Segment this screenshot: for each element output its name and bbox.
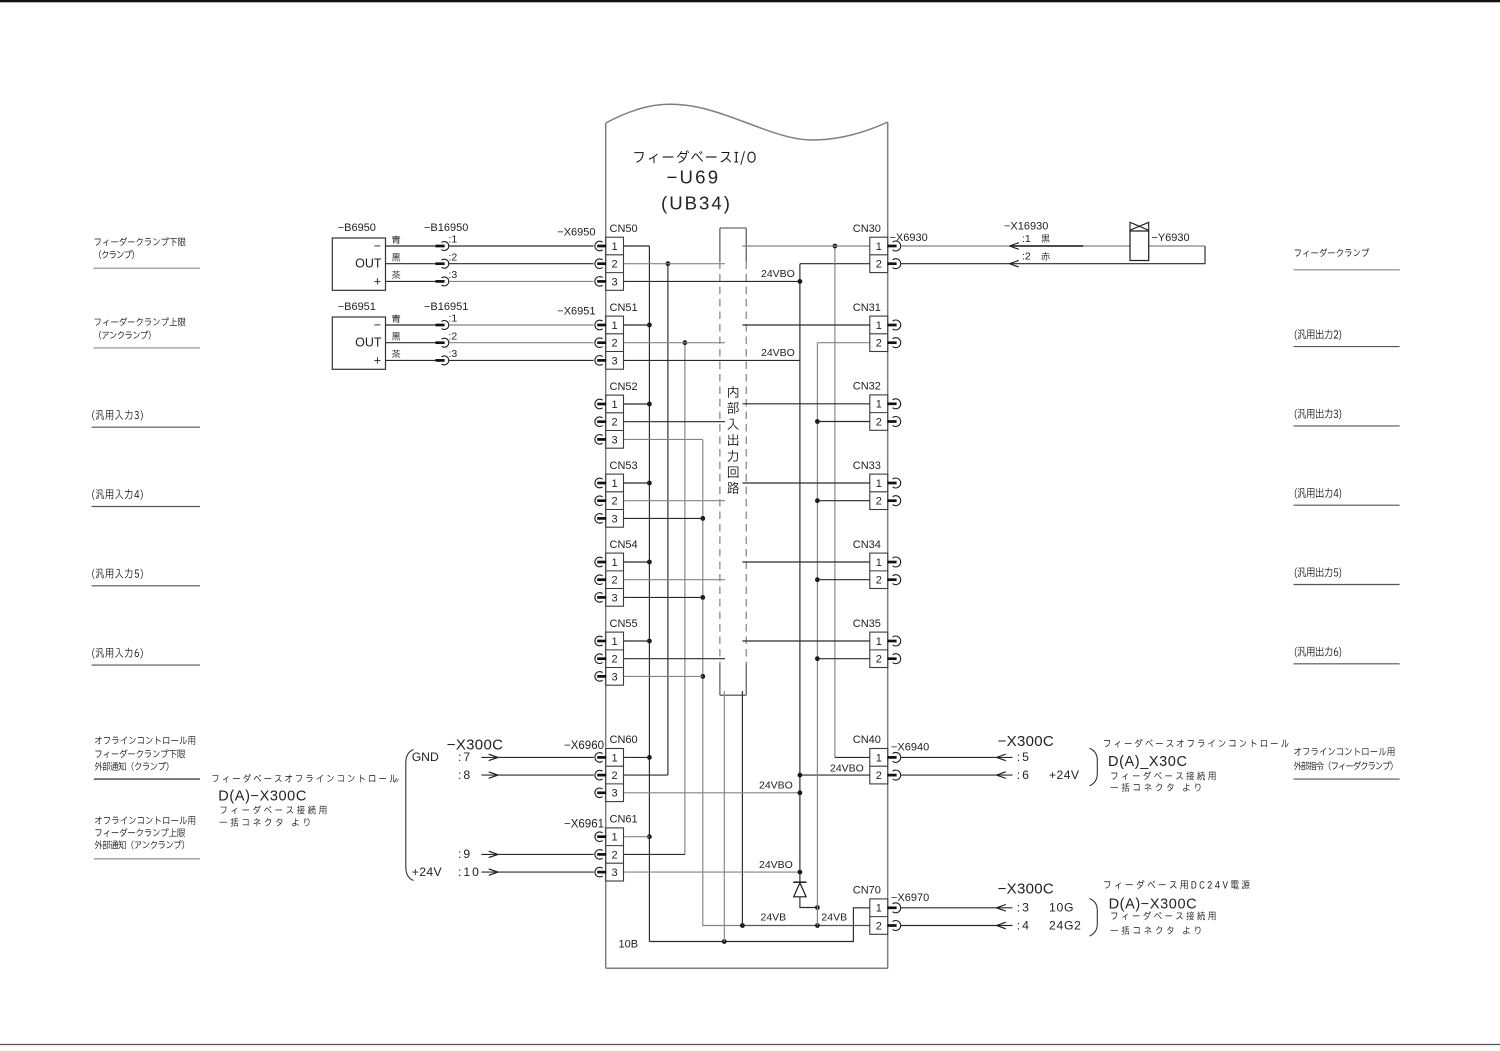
wire CN40-2 external	[901, 774, 1013, 776]
note feeder base offline control (right)	[1104, 739, 1288, 748]
wire B16951-1 to X6951-1	[449, 324, 594, 326]
wire B16950-2 to X6950-2	[449, 263, 594, 265]
junction dot 24VBO/CN60-3	[798, 790, 803, 795]
wire CN53 pin 2	[624, 500, 726, 502]
note feeder base connection (power)	[1111, 911, 1215, 920]
connector B16950 pin 2 symbol	[435, 262, 444, 265]
label feeder clamp upper limit	[95, 317, 186, 326]
svg-text:3: 3	[612, 592, 618, 604]
underline	[94, 347, 201, 349]
svg-text:CN32: CN32	[853, 381, 881, 393]
svg-text::2: :2	[449, 251, 458, 263]
wire CN60 pin 3	[624, 792, 800, 794]
svg-text:24VBO: 24VBO	[830, 762, 864, 774]
CN55 pin 1 socket symbol	[595, 636, 603, 646]
wire CN61 pin 3	[624, 871, 800, 873]
svg-text:3: 3	[612, 276, 618, 288]
connector CN35	[870, 632, 888, 667]
label feeder clamp lower limit	[95, 237, 186, 246]
svg-text:D(A)−X300C: D(A)−X300C	[1109, 897, 1198, 913]
svg-text:CN30: CN30	[853, 223, 881, 235]
label feeder clamp lower	[95, 749, 185, 758]
wire 24VBO to CN30-2	[800, 263, 870, 265]
underline	[1294, 584, 1400, 586]
svg-text:3: 3	[612, 671, 618, 683]
svg-text:−B6950: −B6950	[338, 222, 376, 234]
wire CN52 pin 1	[624, 403, 650, 405]
wire B16950-3 to X6950-3	[449, 280, 594, 282]
CN54 pin 3 socket symbol	[595, 593, 603, 603]
label ext notify (clamp)	[95, 762, 169, 771]
wire CN32 pin 2	[817, 421, 869, 423]
connector B16951 pin 1 symbol	[435, 324, 444, 327]
wire B6951 minus	[386, 324, 436, 326]
CN60 pin 3 socket symbol	[595, 788, 603, 798]
node bus 10G vertical (x=649)	[648, 246, 650, 942]
svg-text:−U69: −U69	[667, 167, 721, 188]
CN30 pin 1 plug symbol	[893, 241, 901, 251]
svg-text:2: 2	[876, 575, 882, 587]
svg-text:D(A)_X30C: D(A)_X30C	[1108, 754, 1188, 770]
svg-text:GND: GND	[412, 750, 439, 764]
CN32 pin 2 plug symbol	[893, 417, 901, 427]
underline	[1294, 663, 1400, 665]
svg-text:+: +	[374, 274, 381, 288]
svg-text:3: 3	[612, 788, 618, 800]
arrow into CN61-2	[489, 851, 498, 857]
svg-text:CN53: CN53	[610, 460, 638, 472]
wire B16950-1 to X6950-1	[449, 245, 594, 247]
wire CN55 pin 3	[624, 675, 703, 677]
underline	[94, 267, 201, 269]
svg-text:D(A)−X300C: D(A)−X300C	[218, 789, 307, 805]
wire CN34 pin 2	[817, 579, 869, 581]
svg-text:CN34: CN34	[853, 539, 881, 551]
brace CN70 group	[1090, 899, 1098, 937]
connector B16950 pin 1 symbol	[435, 245, 444, 248]
svg-text:24VBO: 24VBO	[759, 780, 793, 792]
wire CN60 pin 1	[624, 756, 650, 758]
label feeder base offline control	[212, 774, 396, 783]
svg-text:2: 2	[612, 496, 618, 508]
svg-text:−X6940: −X6940	[891, 742, 929, 754]
svg-text::4: :4	[1017, 918, 1031, 932]
svg-text:3: 3	[612, 434, 618, 446]
label (general input 6)	[92, 648, 142, 659]
svg-text:24G2: 24G2	[1049, 918, 1082, 932]
svg-text:24VBO: 24VBO	[761, 347, 795, 359]
svg-text:2: 2	[876, 416, 882, 428]
svg-text:1: 1	[876, 399, 882, 411]
CN61 pin 2 socket symbol	[595, 850, 603, 860]
svg-text::3: :3	[1017, 901, 1031, 915]
underline	[94, 858, 200, 860]
wire CN31 pin 2	[817, 342, 869, 344]
connector CN52	[606, 395, 624, 448]
CN50 pin 2 socket symbol	[595, 259, 603, 269]
wire color label black	[392, 332, 400, 340]
junction dots pin3 bus	[700, 516, 705, 521]
net 24VBO vertical (x=800)	[799, 264, 801, 884]
junction dot 10B/x724	[722, 939, 727, 944]
CN53 pin 2 socket symbol	[595, 496, 603, 506]
underline	[92, 426, 201, 428]
svg-text:−X6951: −X6951	[557, 306, 595, 318]
wire CN30 pin 1	[742, 245, 869, 247]
wire 10B horizontal to CN70-1	[649, 908, 869, 942]
svg-text:1: 1	[876, 636, 882, 648]
connector CN40	[870, 749, 888, 784]
svg-text:−X6960: −X6960	[564, 740, 604, 752]
underline	[1294, 346, 1400, 348]
CN55 pin 3 socket symbol	[595, 672, 603, 682]
label feeder base connection	[221, 805, 327, 814]
CN61 pin 3 socket symbol	[595, 867, 603, 877]
arrow into CN60-2	[489, 772, 498, 778]
label (unclamp)	[99, 331, 150, 340]
underline	[92, 585, 201, 587]
svg-text:2: 2	[876, 770, 882, 782]
CN52 pin 3 socket symbol	[595, 435, 603, 445]
underline	[1294, 269, 1400, 271]
label (general output 6)	[1295, 647, 1341, 658]
CN52 pin 2 socket symbol	[595, 417, 603, 427]
svg-text::10: :10	[458, 865, 481, 879]
svg-text:1: 1	[612, 557, 618, 569]
svg-text:CN51: CN51	[610, 302, 638, 314]
wire CN30-1 to valve	[901, 245, 1205, 247]
svg-text:−: −	[374, 318, 381, 332]
svg-text:CN52: CN52	[610, 381, 638, 393]
svg-text:−X300C: −X300C	[447, 737, 503, 754]
solenoid valve Y6930	[1130, 231, 1149, 261]
CN53 pin 1 socket symbol	[595, 478, 603, 488]
svg-text:2: 2	[876, 920, 882, 932]
connector CN61	[606, 828, 624, 881]
label (general input 4)	[92, 489, 142, 500]
svg-text:1: 1	[876, 478, 882, 490]
wire X300C-10 to X6961-3	[481, 871, 593, 873]
wire CN70-2 external	[901, 925, 1013, 927]
svg-text:CN35: CN35	[853, 618, 881, 630]
wire CN31 pin 1	[742, 324, 869, 326]
CN34 pin 2 plug symbol	[893, 575, 901, 585]
connector CN30	[870, 237, 888, 272]
svg-text:CN40: CN40	[853, 734, 881, 746]
CN35 pin 2 plug symbol	[893, 654, 901, 664]
wire color label black	[392, 253, 400, 261]
wire CN55 pin 1	[624, 640, 650, 642]
note feeder base DC24V power	[1104, 880, 1250, 889]
note feeder base connection (right)	[1111, 771, 1215, 780]
svg-text:1: 1	[612, 241, 618, 253]
wire CN70-1 external	[901, 907, 1013, 909]
vertical wire x=703 (pin3 bus to 24VB)	[703, 440, 743, 926]
wire CN54 pin 2	[624, 579, 726, 581]
CN55 pin 2 socket symbol	[595, 654, 603, 664]
svg-text:1: 1	[612, 320, 618, 332]
svg-text:−B16951: −B16951	[424, 301, 468, 313]
wire CN34 pin 1	[742, 561, 869, 563]
label (general output 3)	[1295, 409, 1341, 420]
svg-text:1: 1	[876, 557, 882, 569]
arrow out CN40-2	[997, 772, 1006, 779]
CN32 pin 1 plug symbol	[893, 399, 901, 409]
sensor B6951 box	[332, 317, 385, 369]
vertical wire x=817 (CN3x-2 common)	[816, 343, 818, 926]
CN34 pin 1 plug symbol	[893, 557, 901, 567]
vertical wire x=685 (CN51-2 to CN61-2)	[684, 343, 686, 855]
svg-text:1: 1	[876, 320, 882, 332]
underline	[1294, 778, 1400, 780]
label (general output 5)	[1295, 567, 1341, 578]
wire valve return	[901, 246, 1205, 264]
wire color label red	[1041, 252, 1050, 260]
svg-text:3: 3	[612, 513, 618, 525]
feeder base I/O unit U69 (UB34) outline	[606, 104, 888, 140]
arrow into CN61-3	[489, 869, 498, 875]
wire CN53 pin 3	[624, 517, 703, 519]
sheet top border	[0, 0, 1500, 2]
CN61 pin 1 socket symbol	[595, 832, 603, 842]
underline	[1294, 504, 1400, 506]
junction dot 24VBO/CN40-2	[798, 773, 803, 778]
svg-text:−B16950: −B16950	[424, 222, 468, 234]
connector CN54	[606, 553, 624, 606]
svg-text:1: 1	[876, 752, 882, 764]
CN31 pin 1 plug symbol	[893, 320, 901, 330]
label (general input 3)	[92, 410, 142, 421]
wire X300C-7 to X6960-1	[481, 756, 593, 758]
svg-text:1: 1	[612, 478, 618, 490]
svg-text:−X6961: −X6961	[564, 818, 604, 830]
svg-text:24VB: 24VB	[761, 911, 787, 923]
svg-text:CN31: CN31	[853, 302, 881, 314]
junction dot CN50-2	[666, 261, 671, 266]
wire CN50 pin 2	[624, 263, 726, 265]
wire B6950 out	[386, 263, 436, 265]
CN35 pin 1 plug symbol	[893, 636, 901, 646]
CN70 pin 1 plug symbol	[893, 903, 901, 913]
connector B16951 pin 3 symbol	[435, 359, 444, 362]
svg-text:CN55: CN55	[610, 618, 638, 630]
svg-text:10G: 10G	[1049, 901, 1074, 915]
junction dot 24VB/x817	[815, 923, 820, 928]
wire CN60 pin 2	[624, 774, 668, 776]
connector B16950 pin 3 symbol	[435, 280, 444, 283]
CN40 pin 1 plug symbol	[893, 752, 901, 762]
svg-text:+24V: +24V	[412, 865, 443, 879]
svg-text::3: :3	[449, 269, 458, 281]
svg-text:CN50: CN50	[610, 223, 638, 235]
svg-text:−X300C: −X300C	[998, 733, 1054, 750]
CN40 pin 2 plug symbol	[893, 770, 901, 780]
arrow into CN30-1	[1010, 243, 1019, 250]
arrow into CN30-2	[1010, 260, 1019, 267]
svg-text:1: 1	[612, 832, 618, 844]
svg-text:1: 1	[612, 636, 618, 648]
internal I/O circuit dashed box	[720, 227, 746, 229]
CN50 pin 1 socket symbol	[595, 241, 603, 251]
note batch connector from (power)	[1110, 926, 1200, 935]
svg-text:1: 1	[876, 241, 882, 253]
svg-text:CN33: CN33	[853, 460, 881, 472]
wire CN54 pin 3	[624, 596, 703, 598]
svg-text:24VBO: 24VBO	[759, 859, 793, 871]
connector CN70	[870, 899, 888, 934]
junction dots CN3x-2 common	[815, 419, 820, 424]
wire CN50 pin 3	[624, 280, 800, 282]
svg-text::1: :1	[449, 313, 458, 325]
svg-text:2: 2	[876, 496, 882, 508]
U69 title text	[634, 150, 755, 165]
wire CN40 pin 1	[835, 756, 870, 758]
wire CN35 pin 1	[742, 640, 869, 642]
svg-text:(UB34): (UB34)	[661, 193, 732, 214]
note batch connector from (right)	[1110, 783, 1200, 792]
svg-text::1: :1	[449, 234, 458, 246]
svg-text:−X6950: −X6950	[557, 227, 595, 239]
junction dot diode anode	[815, 905, 820, 910]
underline	[1294, 425, 1400, 427]
wire segment (black lead)	[1012, 245, 1083, 247]
svg-text:24VBO: 24VBO	[761, 268, 795, 280]
connector CN55	[606, 632, 624, 685]
wire color label blue	[392, 314, 400, 322]
wire CN40-1 external	[901, 756, 1013, 758]
svg-text:3: 3	[612, 355, 618, 367]
CN33 pin 2 plug symbol	[893, 496, 901, 506]
svg-text:2: 2	[612, 654, 618, 666]
sheet bottom border	[0, 1044, 1500, 1046]
svg-text:1: 1	[876, 903, 882, 915]
wire X300C-8 to X6960-2	[481, 774, 593, 776]
arrow out CN70-2	[997, 922, 1006, 929]
svg-text::3: :3	[449, 348, 458, 360]
svg-text:2: 2	[876, 259, 882, 271]
svg-text:+24V: +24V	[1049, 768, 1080, 782]
junction dot CN51-2	[683, 340, 688, 345]
svg-text::5: :5	[1017, 750, 1031, 764]
wire CN61 pin 2	[624, 853, 685, 855]
CN70 pin 2 plug symbol	[893, 921, 901, 931]
svg-text:2: 2	[612, 259, 618, 271]
wire B16951-3 to X6951-3	[449, 359, 594, 361]
brace left group	[406, 750, 414, 881]
label offline control (right col)	[1294, 747, 1394, 755]
CN33 pin 1 plug symbol	[893, 478, 901, 488]
wire 24VBO to CN40-2	[800, 774, 870, 776]
svg-text:CN70: CN70	[853, 885, 881, 897]
junction dot CN30-1/x835	[833, 244, 838, 249]
label (clamp)	[99, 250, 134, 259]
wire B16951-2 to X6951-2	[449, 342, 594, 344]
svg-text:1: 1	[612, 399, 618, 411]
label feeder clamp (right)	[1295, 248, 1369, 257]
junction dot 24VB/x742	[740, 923, 745, 928]
arrow out CN40-1	[997, 754, 1006, 761]
wire color label brown	[392, 350, 401, 358]
wire B6951 plus	[386, 359, 436, 361]
diode D1 (24VB to 24VBO)	[793, 881, 806, 883]
CN53 pin 3 socket symbol	[595, 514, 603, 524]
sensor B6950 box	[332, 238, 385, 290]
svg-text::1: :1	[1022, 233, 1031, 245]
wire CN33 pin 1	[742, 482, 869, 484]
CN52 pin 1 socket symbol	[595, 399, 603, 409]
label (general output 2)	[1295, 329, 1341, 340]
wire CN51 pin 3	[624, 359, 800, 361]
wire CN50 pin 1	[624, 245, 650, 247]
svg-text::9: :9	[458, 847, 472, 861]
label feeder clamp upper	[95, 828, 185, 837]
vertical wire x=835 (CN30-1 to CN40-1)	[834, 246, 836, 757]
svg-text::2: :2	[1022, 251, 1031, 263]
junction dot 24VBO/CN50-3	[798, 279, 803, 284]
svg-text:24VB: 24VB	[821, 911, 847, 923]
svg-text:−X6930: −X6930	[890, 232, 928, 244]
wire color label blue	[392, 235, 400, 243]
svg-text:3: 3	[612, 867, 618, 879]
svg-text::2: :2	[449, 330, 458, 342]
svg-text:2: 2	[612, 417, 618, 429]
label (general input 5)	[92, 568, 142, 579]
svg-text:−: −	[374, 239, 381, 253]
wire CN33 pin 2	[817, 500, 869, 502]
svg-text:2: 2	[612, 849, 618, 861]
wire CN51 pin 2	[624, 342, 726, 344]
wire CN53 pin 1	[624, 482, 650, 484]
junction dots on 10G bus	[647, 323, 652, 328]
connector CN32	[870, 395, 888, 430]
connector CN53	[606, 474, 624, 527]
svg-text:2: 2	[876, 654, 882, 666]
wire 24VB to CN70-2	[742, 925, 869, 927]
underline	[92, 664, 201, 666]
wire CN54 pin 1	[624, 561, 650, 563]
wire CN52 pin 3	[624, 438, 703, 440]
svg-text:−B6951: −B6951	[338, 301, 376, 313]
CN54 pin 1 socket symbol	[595, 557, 603, 567]
svg-text:−Y6930: −Y6930	[1151, 232, 1189, 244]
svg-text:2: 2	[612, 770, 618, 782]
connector CN31	[870, 316, 888, 351]
junction dot 24VBO/CN61-3	[798, 870, 803, 875]
wire color label brown	[392, 271, 401, 279]
wire CN61 pin 1	[624, 836, 650, 838]
svg-text:2: 2	[612, 338, 618, 350]
label batch connector from	[219, 818, 309, 827]
CN31 pin 2 plug symbol	[893, 338, 901, 348]
svg-text:CN60: CN60	[610, 734, 638, 746]
vertical wire x=724 (internal box to 10B)	[723, 691, 725, 942]
wire CN55 pin 2	[624, 658, 726, 660]
connector CN33	[870, 474, 888, 509]
wire B6950 minus	[386, 245, 436, 247]
CN51 pin 1 socket symbol	[595, 320, 603, 330]
label (general output 4)	[1295, 488, 1341, 499]
wire X300C-9 to X6961-2	[481, 853, 593, 855]
CN30 pin 2 plug symbol	[893, 259, 901, 269]
svg-text:−X300C: −X300C	[998, 881, 1054, 898]
svg-text:2: 2	[612, 575, 618, 587]
connector CN50	[606, 237, 624, 290]
svg-text:1: 1	[612, 752, 618, 764]
wire CN52 pin 2	[624, 421, 726, 423]
wire CN51 pin 1	[624, 324, 650, 326]
svg-text:CN54: CN54	[610, 539, 638, 551]
svg-text:CN61: CN61	[610, 814, 638, 826]
